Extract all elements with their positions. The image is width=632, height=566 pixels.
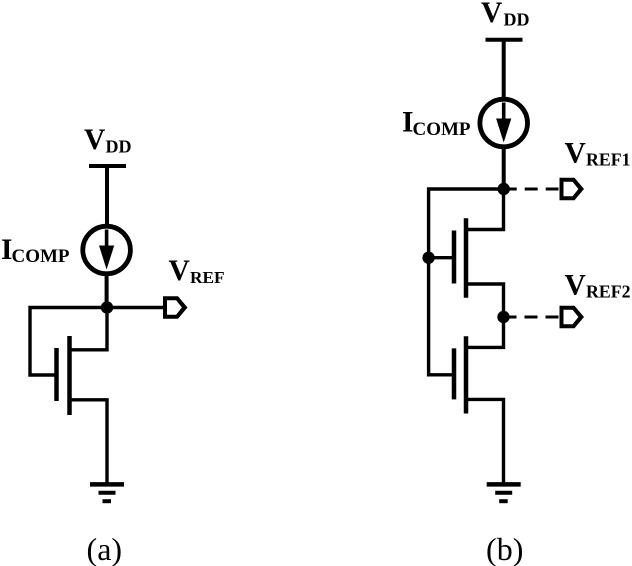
VREF label (a) xyxy=(169,255,225,287)
svg-text:DD: DD xyxy=(504,9,530,29)
dashed wire node 2 to output pin (b) xyxy=(504,316,559,319)
transistor M1 gate bar (a) xyxy=(54,348,59,401)
VREF2 label (b) xyxy=(565,270,631,302)
svg-text:REF1: REF1 xyxy=(586,150,630,170)
node dot 1 (b) VREF1 node xyxy=(498,183,510,195)
svg-text:V: V xyxy=(565,270,586,302)
wire VDD bar to current source (a) xyxy=(105,166,109,227)
wire current source to node (a) xyxy=(105,274,109,304)
node dot (a) VREF node xyxy=(101,301,113,313)
ground symbol (b) xyxy=(487,484,521,501)
wire node to output pin (a) xyxy=(107,306,164,309)
node dot 2 (b) VREF2 node xyxy=(497,311,509,323)
wire M2 drain to node 1 (b) xyxy=(466,189,504,230)
svg-text:DD: DD xyxy=(106,137,132,157)
current source I_COMP (b) xyxy=(480,99,528,147)
svg-text:COMP: COMP xyxy=(413,119,471,140)
VDD label (a) xyxy=(84,124,132,157)
wire M3 source to ground (b) xyxy=(466,399,504,486)
svg-text:V: V xyxy=(481,0,502,29)
wire M1 source to ground (a) xyxy=(70,400,108,486)
transistor M3 gate bar (b) xyxy=(452,348,457,399)
VDD rail bar (b) xyxy=(486,38,523,42)
transistor M3 channel bar (b) xyxy=(464,336,469,413)
transistor M2 gate bar (b) xyxy=(452,231,457,284)
output pin symbol VREF1 (b) xyxy=(560,178,585,200)
wire VDD bar to current source (b) xyxy=(502,40,506,100)
dashed wire node 1 to output pin (b) xyxy=(504,188,559,191)
current source I_COMP (a) xyxy=(83,226,131,274)
VDD rail bar (a) xyxy=(89,164,126,168)
I_COMP label (b) xyxy=(402,107,471,140)
svg-text:REF: REF xyxy=(190,268,225,287)
output pin symbol VREF2 (b) xyxy=(560,306,585,328)
svg-text:(a): (a) xyxy=(87,531,123,566)
svg-text:COMP: COMP xyxy=(12,246,70,267)
wire M2 source to node 2 (b) xyxy=(466,284,504,317)
wire gate bus (b): node 1 left, down, to M3 gate xyxy=(429,189,504,375)
svg-text:V: V xyxy=(169,255,190,287)
ground symbol (a) xyxy=(90,484,124,501)
VREF1 label (b) xyxy=(565,137,631,169)
wire M3 drain to node 2 (b) xyxy=(466,317,504,347)
transistor M2 channel bar (b) xyxy=(464,218,469,297)
wire gate feedback loop (a): node left, down, to gate xyxy=(30,308,107,376)
wire current source to node 1 (b) xyxy=(502,147,506,185)
VDD label (b) xyxy=(481,0,530,29)
svg-text:(b): (b) xyxy=(486,531,523,566)
transistor M1 channel bar (a) xyxy=(67,336,72,415)
output pin symbol VREF (a) xyxy=(163,296,188,318)
wire M2 gate connection (b) xyxy=(429,256,452,259)
I_COMP label (a) xyxy=(1,234,70,267)
svg-text:V: V xyxy=(84,124,105,156)
junction dot M2 gate (b) xyxy=(422,252,434,264)
svg-text:V: V xyxy=(565,137,586,169)
svg-text:REF2: REF2 xyxy=(586,282,631,302)
wire M1 drain to node (a) xyxy=(70,308,108,350)
